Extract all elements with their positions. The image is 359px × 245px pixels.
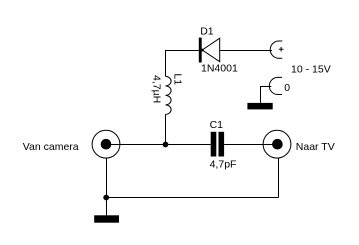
wire: diode anode to + terminal	[220, 50, 272, 52]
ground (signal)	[94, 215, 119, 222]
connector J2 Naar TV	[263, 130, 291, 158]
svg-text:C1: C1	[210, 119, 224, 131]
svg-text:Naar TV: Naar TV	[296, 141, 335, 153]
wire: J1 center pin to node A	[106, 144, 166, 146]
svg-text:L1: L1	[172, 73, 184, 85]
wire: node A to C1 left plate	[166, 144, 211, 146]
diode D1	[199, 38, 220, 63]
power terminal +	[270, 41, 283, 58]
wire: 0 terminal to supply ground	[261, 87, 272, 103]
power terminal 0	[269, 77, 282, 94]
svg-text:0: 0	[284, 82, 290, 94]
inductor L1 (4 coil bumps)	[166, 76, 172, 114]
svg-text:1N4001: 1N4001	[201, 63, 238, 75]
node B junction	[103, 195, 109, 201]
svg-text:D1: D1	[200, 26, 214, 38]
wire: bottom return node B to J2 shield	[107, 197, 279, 199]
ground (supply return)	[247, 103, 272, 110]
svg-text:10 - 15V: 10 - 15V	[291, 63, 331, 75]
wire: C1 right plate to J2 center pin	[224, 144, 277, 146]
connector J1 Van camera	[92, 130, 120, 158]
wire: inductor top up and right to diode cathode	[166, 51, 199, 77]
svg-text:4,7pF: 4,7pF	[210, 158, 237, 170]
wire: inductor bottom to node A	[165, 114, 167, 144]
svg-text:4,7µH: 4,7µH	[151, 75, 163, 103]
capacitor C1	[211, 132, 224, 157]
svg-text:Van camera: Van camera	[23, 141, 79, 153]
wire: J2 shield down	[278, 158, 280, 197]
node A junction	[163, 142, 169, 148]
wire: J1 shield down to node B	[106, 158, 108, 197]
wire: node B to ground	[106, 198, 108, 216]
